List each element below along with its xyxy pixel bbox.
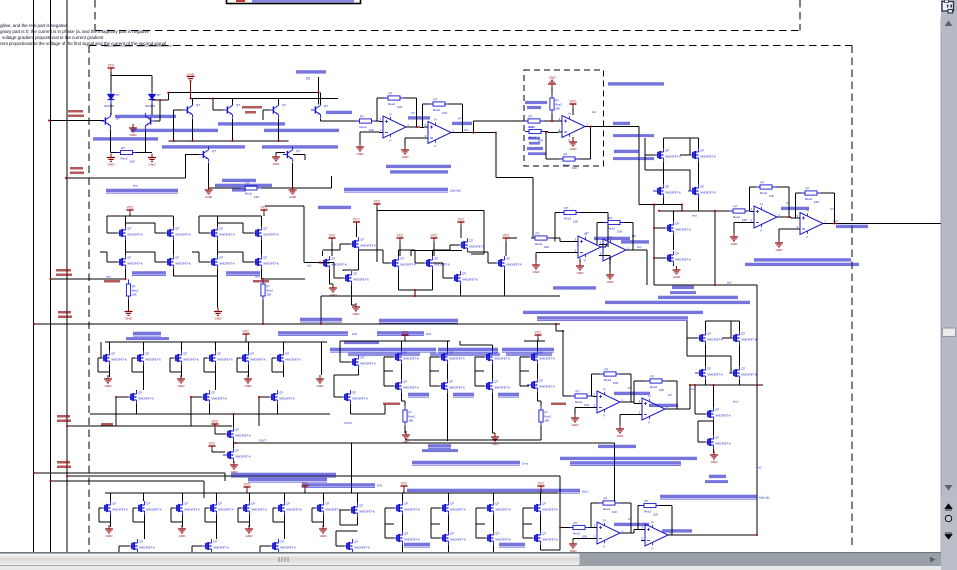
svg-text:voltage gradient proportional: voltage gradient proportional to the cur… [2, 35, 104, 40]
wire Q5 base [263, 110, 269, 120]
transistor M36 [437, 350, 465, 364]
ground mid row1 [272, 153, 280, 166]
label opamp5b annotation [649, 404, 678, 407]
transistor M67 [392, 531, 420, 545]
resistor RB2 [525, 125, 545, 142]
transistor M61 [347, 503, 375, 517]
wire Q7 base stub [293, 155, 305, 161]
wire Q2 base up [152, 93, 168, 121]
resistor RB3 feedback [559, 153, 579, 170]
wire row3L to gnd [110, 372, 284, 377]
wire adder right rail [757, 285, 763, 535]
transistor M17 [388, 256, 416, 270]
transistor M50 [703, 435, 731, 449]
wire row2L block1 upper loop [107, 216, 174, 233]
wire gate tie x180 [170, 358, 182, 372]
label input voltage 1b [68, 115, 84, 118]
wire row2L block1 lower loop [100, 240, 174, 262]
svg-text:f2+a: f2+a [522, 462, 528, 466]
svg-text:Im1: Im1 [464, 128, 469, 132]
wire U2 gnd stub [572, 137, 574, 138]
label 0V +9V bias a [242, 106, 262, 109]
label part numbers row1c [218, 122, 285, 125]
ground bot a [105, 525, 113, 538]
label bottom annotation 1 [231, 473, 336, 477]
power VCC row3M b [535, 331, 543, 339]
junction dots box [545, 120, 591, 133]
label annotation row1 mid b [390, 170, 448, 173]
transistor M58 [127, 539, 155, 553]
transistor M15 [319, 256, 347, 270]
label opamp4b annotation [621, 240, 649, 243]
wire gnd U4A stub [579, 259, 581, 263]
transistor M5 [115, 226, 143, 240]
label 10K b [529, 142, 540, 145]
transistor M30 [126, 390, 154, 404]
wire Q6 base [185, 154, 199, 156]
transistor M14 [348, 237, 376, 251]
scrollbar down arrow [945, 485, 953, 491]
svg-text:U?: U? [585, 231, 589, 235]
svg-text:Ima: Ima [106, 275, 111, 279]
power VCC row3L [243, 330, 251, 338]
wire row2L sources [174, 269, 218, 308]
transistor M45 [695, 331, 723, 345]
resistor R8 feedback [801, 187, 821, 204]
wire gate tie x142 [132, 358, 144, 372]
transistor M34 [223, 448, 251, 462]
scrollbar top area [941, 0, 957, 17]
transistor Q7 [283, 147, 293, 163]
ground adder [710, 451, 718, 464]
label voltage multiplier c [232, 188, 246, 191]
transistor M66 [530, 501, 558, 515]
transistor M18 [422, 256, 450, 270]
label long annotation row2 c [537, 316, 688, 320]
vertical scrollbar track [941, 17, 957, 495]
resistor RV1 [550, 94, 562, 114]
wire row3M mids [402, 364, 538, 379]
wire bot ties x492 [476, 508, 494, 538]
label Current multiplier en [126, 337, 169, 340]
svg-text:Im2: Im2 [757, 466, 762, 470]
wire U6B out [668, 534, 757, 536]
power VCC row2L b [261, 206, 269, 214]
label row3M strip f [506, 353, 552, 356]
wire gnd to RV1 [551, 88, 553, 94]
wire block mid [664, 162, 699, 184]
wire U2 feedback [546, 127, 591, 160]
transistor M33 [223, 427, 251, 441]
wire block gate ties [645, 138, 690, 191]
power VCC mp1 [212, 420, 220, 428]
transistor M26 [171, 351, 199, 365]
wire tap input B [66, 154, 186, 178]
wire U6A out [620, 530, 641, 534]
junction dots opamp chain [416, 126, 497, 133]
transistor Q1 [101, 113, 111, 129]
transistor M24 [99, 351, 127, 365]
wire chain vertical [673, 211, 675, 266]
label master pair b [226, 271, 260, 275]
op-amp U4B [599, 236, 630, 265]
wire row2M mid src [399, 270, 433, 296]
label input voltage row3 [383, 403, 400, 406]
power VCC U2 [570, 100, 578, 108]
label part numbers row1b [93, 137, 158, 140]
wire bot gate tie x143 [133, 508, 145, 522]
label removed B [528, 152, 546, 155]
svg-text:f2(x): f2(x) [582, 490, 588, 494]
window bottom strip [0, 566, 941, 570]
ground chain [673, 266, 681, 279]
wire mp2 src [233, 462, 235, 463]
transistor M48 [729, 366, 757, 380]
transistor M53 [172, 501, 200, 515]
ground row2M b [352, 303, 360, 316]
label annotation row1 left [106, 189, 178, 193]
resistor R18 feedback [646, 375, 666, 392]
wire gate tie x108 [98, 358, 110, 372]
label bottom annotation 3 [302, 483, 375, 487]
label Current adder en row3 [705, 480, 728, 483]
ground R6 [730, 233, 738, 246]
wire U5B gnd [620, 415, 638, 426]
wire tap VIN row3 [67, 425, 232, 427]
svg-text:f2/4: f2/4 [426, 332, 431, 336]
ground top of box (inverted) [548, 76, 556, 88]
transistor M37 [482, 350, 510, 364]
ground U5B [616, 425, 624, 438]
label annotation row1 long [344, 188, 448, 192]
label part numbers row1d [131, 129, 218, 132]
wire row2M low bus [415, 252, 560, 296]
wire diode cathodes [111, 104, 152, 116]
label part numbers row1f [162, 145, 245, 148]
svg-text:Im1: Im1 [833, 219, 838, 223]
transistor M23 [663, 251, 691, 265]
transistor M49 [703, 407, 731, 421]
wire U5A out [620, 402, 638, 404]
label current adder cn row2 [672, 286, 694, 289]
ground under Q2 [148, 154, 156, 167]
wire OA3 out [781, 217, 796, 218]
transistor M4 [688, 184, 716, 198]
transistor M55 [239, 501, 267, 515]
op-amp U4A [574, 233, 605, 262]
wire bot ties x401 [385, 508, 403, 538]
wire M19 gate [433, 245, 459, 256]
power VCC row2M e [397, 234, 405, 242]
wire U4B out [626, 250, 647, 285]
transistor M25 [133, 351, 161, 365]
transistor M16 [341, 271, 369, 285]
junction dots row1 [159, 92, 319, 142]
ground row1 mid [129, 124, 137, 137]
diode D2 [146, 92, 161, 108]
power VCC row2M g [503, 234, 511, 242]
junction dots row3R [689, 384, 758, 386]
horizontal thumb grip [279, 557, 288, 562]
wire bus row2 bottom [34, 323, 560, 325]
transistor M41 [391, 379, 419, 393]
document icon top-right [942, 0, 954, 13]
label long annotation row3R [660, 495, 757, 499]
label Res2 b [528, 137, 540, 140]
transistor M70 [530, 531, 558, 545]
svg-text:Q?: Q? [196, 103, 200, 107]
label long annotation row2 b [523, 311, 703, 314]
wire bot second row [119, 522, 285, 552]
transistor M46 [729, 331, 757, 345]
ground under Q7 [289, 186, 297, 199]
label master pair e [498, 393, 519, 397]
wire row2M vcc stems [330, 226, 506, 256]
transistor M32 [267, 390, 295, 404]
label Output the number [613, 134, 654, 137]
vertical scrollbar border [940, 17, 942, 552]
label +0/-9V 2b [70, 172, 84, 175]
transistor M1 [653, 148, 681, 162]
wire U5A feedback [592, 374, 631, 402]
wire bot bottoms [403, 528, 560, 553]
browse prev page button [945, 504, 952, 510]
label right annotation c [745, 263, 859, 266]
wire bot gate tie x248 [238, 508, 250, 522]
dashed page border (current sheet) [89, 46, 852, 558]
transistor Q5 [269, 102, 279, 118]
wire M20 gate [433, 263, 452, 278]
resistor R17 feedback [600, 368, 620, 385]
wire row3M ties x536 [520, 357, 529, 386]
label 0V input net 1a [68, 110, 83, 113]
wire bottom rails [105, 490, 558, 493]
ground under Q1 [107, 154, 115, 167]
ground mp chain [230, 461, 238, 474]
label opamp6 annotation [614, 523, 649, 526]
svg-text:Q?: Q? [212, 149, 216, 153]
op-amp U6B [641, 521, 672, 550]
wire OA2 feedback loop [423, 104, 463, 133]
transistor M7 [207, 226, 235, 240]
ground row2M a [329, 284, 337, 297]
wire U6A feedback [560, 476, 631, 533]
wire row3L top rail [105, 338, 327, 375]
transistor M52 [134, 501, 162, 515]
transistor M68 [438, 531, 466, 545]
wire tap input A [49, 120, 104, 122]
wire gnd OA2 pin2 [405, 138, 424, 146]
transistor M57 [313, 501, 341, 515]
ground under Q6 [205, 186, 213, 199]
power VCC bot b [401, 482, 409, 490]
wire Q4 base up [213, 99, 223, 111]
wire bot gate tie x283 [273, 508, 285, 522]
wire OA2 out to box [452, 121, 529, 133]
wire M21 gate [468, 252, 496, 263]
wire U5 bias down [318, 77, 320, 104]
label Voltage subtractor en [613, 157, 654, 160]
ground row3M b [491, 433, 499, 446]
svg-text:Q?: Q? [282, 103, 286, 107]
transistor M40 [340, 390, 368, 404]
ground U4B [606, 271, 614, 284]
label output voltage [613, 122, 630, 125]
resistor R1 [117, 146, 137, 163]
wire bottom top rail left [111, 493, 324, 501]
ground bot c [245, 525, 253, 538]
svg-text:Q?: Q? [296, 149, 300, 153]
label part numbers row1g [262, 145, 338, 148]
wire bot ties x447 [431, 508, 449, 538]
wire Q7 collector gnd stub [276, 153, 285, 156]
label opamp2 annotation [452, 122, 472, 125]
label VIN [101, 423, 113, 426]
wire row3M ties x400 [384, 357, 393, 386]
power VCC row2M c [458, 218, 466, 226]
svg-text:(2(a+b)): (2(a+b)) [450, 189, 461, 193]
wire row1 mid bus [168, 119, 288, 141]
dashed page border (previous sheet, top) [95, 0, 800, 31]
label input ACT bias row2 [318, 206, 351, 209]
transistor M38 [527, 350, 555, 364]
wire row3L second row gates [116, 372, 269, 426]
ground bot d [319, 525, 327, 538]
wire U5B feedback [634, 381, 677, 409]
wire bot gate tie x215 [205, 508, 217, 522]
label subtraction A a [525, 101, 547, 104]
corner box [941, 552, 957, 570]
label subtraction A b [527, 106, 541, 109]
wire left rail 3 [66, 0, 68, 552]
wire M18 gate [399, 250, 424, 263]
svg-text:Im2: Im2 [727, 281, 732, 285]
label annotation row1 mid a [386, 165, 451, 168]
wire row2M to bus [321, 296, 415, 324]
wire U4A feedback [555, 213, 608, 248]
svg-text:U?: U? [628, 386, 632, 390]
wire box inputs [544, 114, 562, 133]
op-amp U3A [750, 203, 781, 232]
label Current adder en row2 [670, 291, 696, 294]
label row3M strip c [502, 348, 554, 352]
label bottom annotation 2 [248, 478, 327, 482]
resistor R12 feedback [560, 206, 580, 223]
label opamp3 annotation [781, 207, 809, 210]
label input 3b [56, 274, 72, 277]
wire row3M res bottoms [405, 393, 541, 441]
svg-text:f2/4: f2/4 [377, 484, 382, 488]
resistor R21 feedback [640, 499, 660, 516]
transistor M9 [115, 255, 143, 269]
wire M14 gate [323, 244, 350, 256]
scrollbar thumb [943, 328, 956, 337]
label row3M top a [278, 331, 348, 335]
transistor Q9 [311, 102, 321, 118]
label part numbers row1e [264, 129, 339, 132]
label UV bias b [245, 111, 256, 114]
wire Q3 base down [174, 110, 184, 141]
wire row3M top rails [390, 339, 545, 350]
wire U4B feedback [597, 223, 633, 251]
power VCC row2M b [353, 218, 361, 226]
ground R11 [532, 261, 540, 274]
wire vcc bot a0 [246, 491, 248, 493]
svg-text:U?: U? [411, 111, 415, 115]
ground R19 [569, 540, 577, 553]
wire U2 output [589, 127, 639, 205]
ground R9 [125, 308, 133, 321]
svg-text:U?: U? [830, 207, 834, 211]
wire chain gates [654, 205, 665, 285]
wire bot gate tie x109 [99, 508, 111, 522]
svg-text:Q?: Q? [236, 103, 240, 107]
wire bot gate tie x181 [171, 508, 183, 522]
svg-text:Im1: Im1 [307, 264, 312, 268]
label opamp6b annotation [662, 529, 692, 532]
horizontal scrollbar track [0, 553, 941, 567]
svg-text:U?: U? [628, 517, 632, 521]
wire M2 gate tie [680, 138, 690, 155]
label +0/-1V [551, 403, 566, 406]
transistor M39 [348, 355, 376, 369]
wire bot gate tie x322 [312, 508, 324, 522]
resistor R5 feedback [429, 98, 449, 115]
wire m24 gate [100, 342, 102, 358]
resistor R7 feedback [756, 181, 776, 198]
resistor R6 input [729, 205, 749, 222]
ground row3M a [402, 431, 410, 444]
wire U4A out [599, 245, 606, 248]
transistor M43 [482, 379, 510, 393]
english annotation text top-left [0, 23, 166, 46]
wire row3R block ties [687, 321, 740, 373]
wire row3M ties x446 [430, 357, 439, 386]
wire row2L block2 upper loop [199, 216, 262, 233]
wire gnd R16 pin2 [575, 408, 593, 415]
svg-text:IOUT: IOUT [259, 439, 266, 443]
wire collectors to bus [193, 93, 321, 105]
wire row3R tie2 [722, 321, 731, 338]
junction dots left rails [33, 120, 68, 482]
horizontal scrollbar right arrow [930, 557, 936, 563]
wire gnd row3M b [493, 393, 495, 434]
power VCC bot a0 [244, 483, 252, 491]
label master pair d [453, 393, 474, 397]
wire M16 src [352, 285, 356, 305]
transistor M56 [274, 501, 302, 515]
transistor M28 [238, 351, 266, 365]
wire OA3B feedback [796, 193, 835, 224]
wire R16 [556, 324, 593, 396]
wire R10 to bus [262, 269, 263, 324]
wire res tops [402, 392, 541, 406]
ground under OA2 [401, 146, 409, 159]
transistor M47 [695, 366, 723, 380]
junction dots block rails [653, 204, 682, 212]
wire U4B gnd [599, 256, 610, 272]
scrollbar up arrow button [941, 17, 957, 32]
browse next page button [945, 533, 952, 539]
ground row3L a [104, 375, 112, 388]
resistor R20 feedback [599, 497, 619, 514]
transistor M35 [391, 350, 419, 364]
svg-text:rent proportional to the volta: rent proportional to the voltage of the … [0, 41, 166, 46]
label gain adjust [527, 147, 543, 150]
op-amp U2 [558, 113, 589, 142]
junction dots bottom [559, 527, 758, 536]
op-amp U1A [379, 113, 410, 142]
